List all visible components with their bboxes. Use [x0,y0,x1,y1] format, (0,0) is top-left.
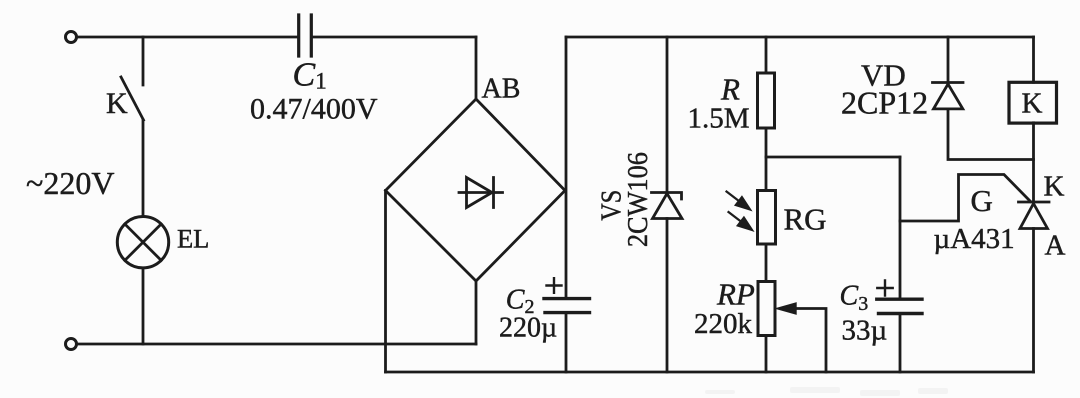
photoresistor RG [758,191,776,245]
svg-text:33µ: 33µ [842,315,888,347]
wire bridge bottom corner down [475,281,478,344]
thyristor U1 uA431 [1019,201,1050,204]
svg-text:RP: RP [716,277,755,312]
wire top-left rail [77,36,297,39]
wire C1 to bridge top [313,36,476,39]
wire lamp to bottom terminal rail [142,268,145,344]
svg-text:RG: RG [784,202,827,237]
svg-text:A: A [1045,230,1066,262]
svg-text:2CP12: 2CP12 [841,85,928,121]
capacitor C2 [544,299,590,313]
svg-text:1.5M: 1.5M [688,103,750,135]
wire top rail to bridge top corner [475,37,478,99]
wire bottom AC rail [77,343,477,346]
photoresistor RG arrows [727,192,753,231]
capacitor C1 [299,15,312,56]
wire gate path [900,175,1031,222]
lamp EL [117,217,168,268]
svg-text:EL: EL [177,224,209,254]
switch K [121,37,144,120]
wire switch to lamp [142,120,145,217]
svg-text:K: K [1044,171,1065,203]
wire junction down to C3 [899,157,902,299]
zener diode VS [666,37,669,193]
svg-text:0.47/400V: 0.47/400V [250,93,378,126]
potentiometer RP [758,282,775,336]
svg-text:AB: AB [482,74,521,105]
relay coil K [1032,37,1035,82]
capacitor C3 polarity + [877,281,892,296]
svg-text:2CW106: 2CW106 [622,152,654,247]
wire bridge right corner up/down (DC+ vertical) [565,37,568,298]
svg-text:µA431: µA431 [934,223,1015,255]
wire R-RG junction to C3/gate [766,156,900,159]
potentiometer RP wiper arrow [793,309,826,373]
svg-text:K: K [1022,88,1043,120]
wire bridge left corner to bottom rail [384,191,387,373]
diode VD [947,37,950,83]
wire C2 to bottom rail [565,314,568,373]
svg-text:K: K [106,87,128,120]
wire C3 to bottom rail [899,314,902,372]
capacitor C2 polarity + [547,278,562,293]
capacitor C3 [877,299,922,313]
bridge inner diode [459,178,503,208]
resistor R [765,37,768,73]
terminal T2 [66,339,77,350]
wire top DC rail [566,36,1034,39]
wire RG to RP [765,244,768,282]
wire RP to bottom rail [765,336,768,373]
svg-text:R: R [720,72,740,107]
svg-text:220k: 220k [694,308,753,340]
svg-text:G: G [971,183,993,218]
svg-text:~220V: ~220V [26,165,114,201]
svg-text:220µ: 220µ [499,313,557,344]
faint cropped caption remnants [705,387,948,396]
terminal T1 [66,32,77,43]
bridge rectifier AB [386,99,566,281]
wire bottom DC rail [386,371,1034,374]
